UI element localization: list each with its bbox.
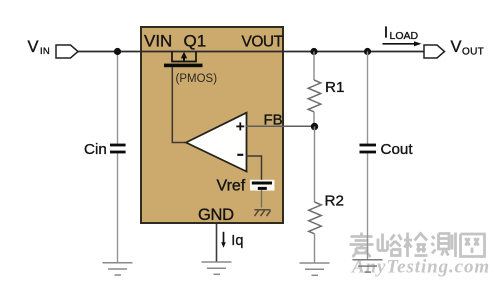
svg-text:I: I (384, 25, 388, 42)
ground (R2) (300, 263, 330, 275)
node R1 top junction (310, 48, 317, 55)
label Q1 (184, 32, 207, 51)
wire VOUT to R1 (313, 52, 315, 81)
connector J2 VOUT (424, 45, 445, 58)
svg-text:(PMOS): (PMOS) (176, 73, 218, 85)
capacitor Cin (110, 144, 126, 154)
svg-text:Cout: Cout (381, 141, 414, 158)
svg-text:R1: R1 (325, 79, 344, 96)
label Cout (381, 141, 414, 158)
label FB (264, 111, 283, 128)
label GND pin (198, 206, 234, 224)
ground (Vref signal ground hatch) (255, 210, 271, 216)
svg-text:LOAD: LOAD (390, 30, 419, 42)
svg-text:VIN: VIN (144, 32, 172, 51)
I_LOAD arrow (383, 41, 422, 46)
connector J1 VIN (56, 45, 78, 58)
watermark hanzi 2 (378, 234, 402, 256)
wire GND to ground (216, 224, 218, 262)
label VIN port (28, 38, 50, 57)
label (PMOS) (176, 73, 218, 85)
wire FB from op-amp plus to divider (246, 125, 315, 127)
ground (Cin) (103, 263, 133, 275)
LDO IC body U1 (141, 27, 283, 223)
svg-text:Vref: Vref (217, 178, 246, 195)
wire gate to error amp (172, 67, 185, 143)
wire main VIN-VOUT rail (78, 51, 424, 53)
svg-text:VOUT: VOUT (242, 34, 284, 51)
svg-text:V: V (28, 38, 39, 56)
label R2 (325, 193, 344, 210)
ground (Cout) (353, 260, 383, 272)
watermark hanzi 4 (432, 233, 456, 258)
svg-text:V: V (451, 38, 462, 56)
svg-text:Cin: Cin (84, 141, 107, 158)
capacitor Cout (360, 144, 377, 154)
op-amp minus input mark (237, 154, 243, 156)
svg-text:FB: FB (264, 111, 283, 128)
label Iq (231, 233, 243, 249)
label Cin (84, 141, 107, 158)
transistor Q1 PMOS (164, 52, 203, 68)
ground (GND) (202, 262, 232, 274)
wire FB node to R2 (314, 127, 316, 203)
wire Cout branch (367, 52, 369, 260)
op-amp U2 error amplifier (186, 113, 247, 172)
label I_LOAD (384, 25, 419, 43)
reference Vref battery (250, 180, 275, 191)
label Vref (217, 178, 246, 195)
watermark hanzi 1 (350, 233, 374, 258)
wire R2 to ground (314, 234, 316, 263)
resistor R2 (309, 202, 322, 234)
label R1 (325, 79, 344, 96)
svg-text:Q1: Q1 (184, 32, 207, 51)
wire Cin branch (117, 52, 119, 263)
node FB junction (311, 123, 318, 130)
svg-text:R2: R2 (325, 193, 344, 210)
svg-text:Iq: Iq (231, 233, 243, 249)
resistor R1 (308, 80, 321, 112)
svg-text:GND: GND (198, 206, 234, 224)
svg-text:IN: IN (40, 46, 50, 57)
wire Vref to signal ground (261, 190, 263, 208)
label VOUT pin (242, 34, 284, 51)
Iq arrow (221, 232, 226, 248)
svg-text:OUT: OUT (462, 46, 484, 57)
wire R1 to FB node (313, 112, 315, 127)
op-amp plus input mark (236, 122, 244, 130)
wire op-amp minus to Vref (246, 156, 262, 181)
node Cout junction (364, 48, 371, 55)
label VIN pin (144, 32, 172, 51)
watermark hanzi 3 (404, 233, 428, 258)
label VOUT port (451, 38, 485, 57)
watermark hanzi 5 (461, 234, 485, 257)
node Cin junction (114, 48, 121, 55)
